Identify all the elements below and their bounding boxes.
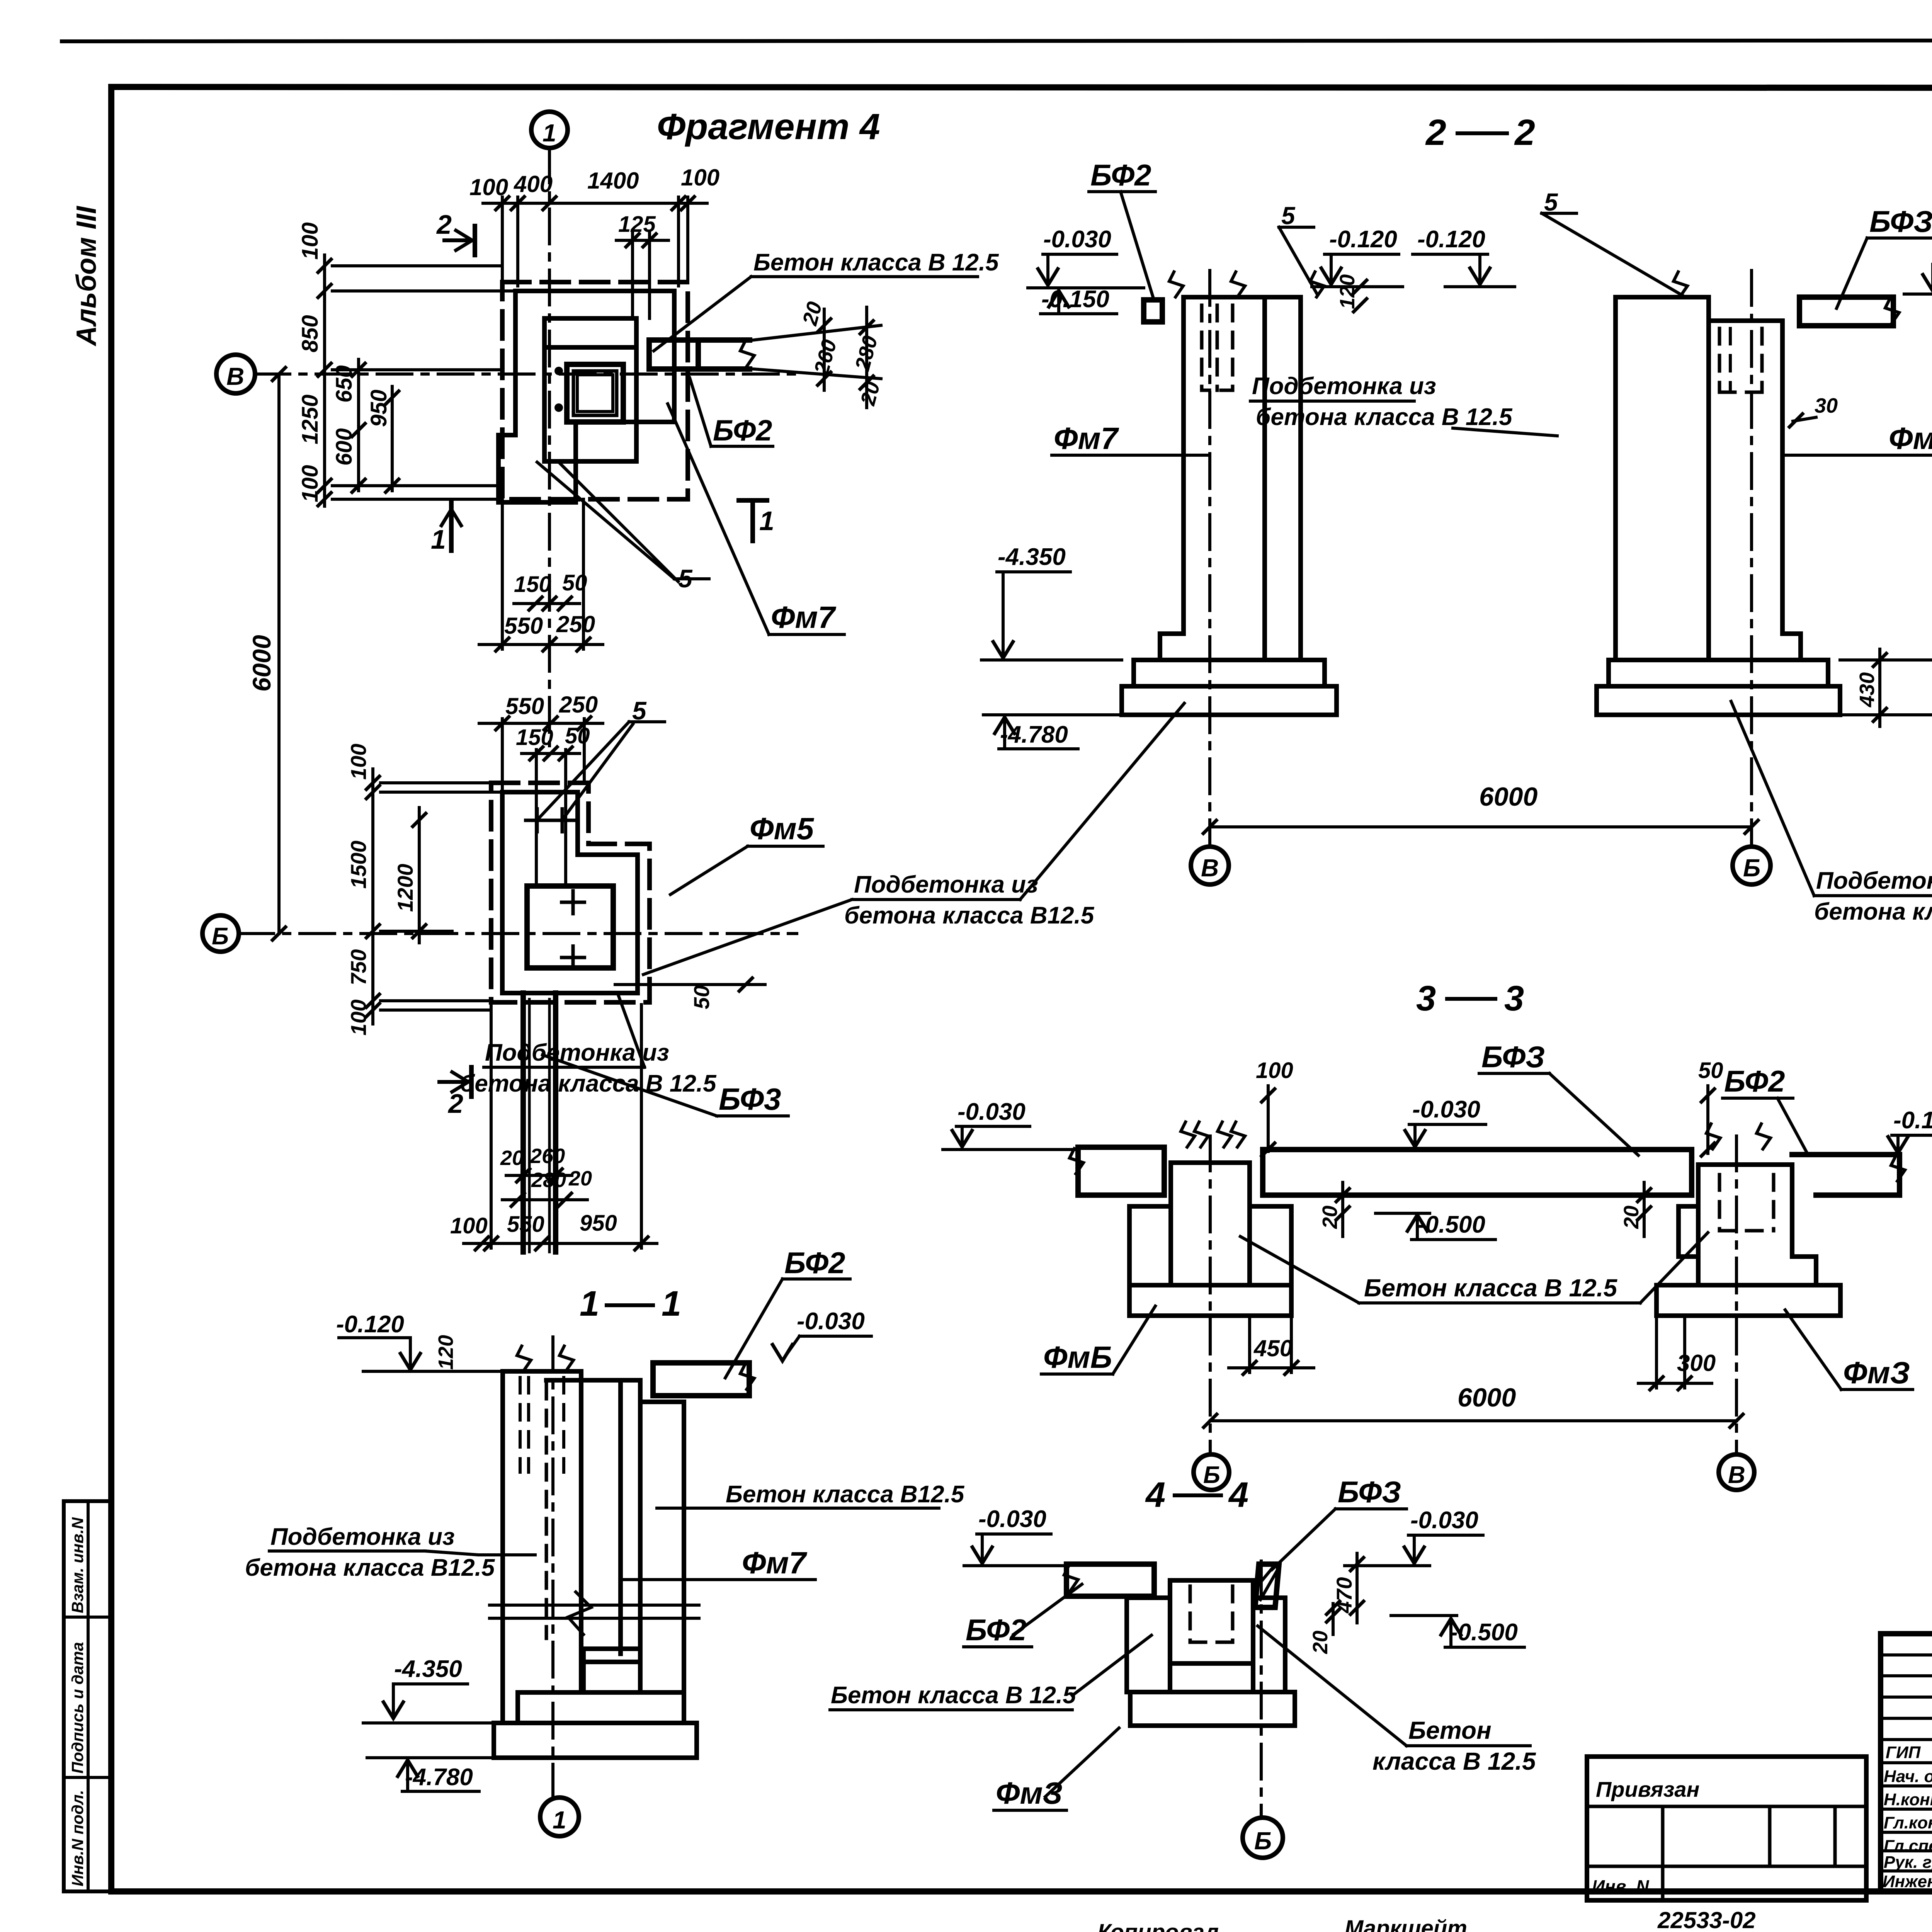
svg-text:Б: Б <box>1743 854 1760 882</box>
hidden pocket right pier <box>1719 1175 1774 1231</box>
svg-text:Б: Б <box>1203 1462 1220 1488</box>
svg-text:300: 300 <box>1677 1350 1716 1376</box>
axis right pier <box>1735 1136 1738 1453</box>
BF2 stub top left <box>1144 300 1162 322</box>
svg-text:-0.150: -0.150 <box>1893 1107 1932 1134</box>
svg-text:250: 250 <box>559 692 598 718</box>
svg-text:120: 120 <box>434 1335 457 1370</box>
svg-text:БФЗ: БФЗ <box>1481 1040 1545 1074</box>
svg-text:100: 100 <box>450 1213 488 1238</box>
right footing slab <box>1597 686 1840 715</box>
svg-text:1: 1 <box>553 1806 566 1834</box>
svg-text:бетона класса В12.5: бетона класса В12.5 <box>844 902 1095 929</box>
foundation solid outline <box>502 792 638 993</box>
svg-text:2: 2 <box>436 209 452 240</box>
bolt squiggles left col <box>1169 270 1183 298</box>
svg-text:20: 20 <box>500 1146 524 1170</box>
svg-text:БФЗ: БФЗ <box>1869 204 1932 238</box>
axis circle B <box>1194 1454 1229 1490</box>
axis line B horizontal <box>239 932 797 935</box>
axis circle B <box>1733 847 1770 884</box>
svg-text:БФ2: БФ2 <box>713 414 772 447</box>
left footing step <box>1134 660 1325 686</box>
svg-text:-0.030: -0.030 <box>1412 1096 1480 1123</box>
svg-text:Инв.N подл.: Инв.N подл. <box>68 1790 87 1886</box>
title block outer <box>1881 1634 1932 1891</box>
svg-text:ГИП: ГИП <box>1886 1743 1921 1762</box>
sheet top edge line <box>62 40 1932 41</box>
svg-text:470: 470 <box>1332 1577 1356 1614</box>
svg-text:280: 280 <box>531 1168 566 1192</box>
svg-text:-0.030: -0.030 <box>957 1099 1026 1125</box>
svg-text:Фм7: Фм7 <box>742 1546 808 1580</box>
beam BF3 down <box>523 993 556 1252</box>
pit left wall <box>503 1371 581 1723</box>
svg-text:Нач. отд.: Нач. отд. <box>1884 1767 1932 1786</box>
svg-text:50: 50 <box>565 723 590 748</box>
svg-text:Альбом III: Альбом III <box>71 206 102 347</box>
right pier column <box>1679 1165 1816 1285</box>
svg-text:Н.контр.: Н.контр. <box>1884 1790 1932 1809</box>
svg-text:класса В 12.5: класса В 12.5 <box>1372 1747 1536 1775</box>
bolt squiggle right <box>1673 270 1687 298</box>
svg-text:-4.350: -4.350 <box>998 544 1066 570</box>
top dim line <box>483 202 707 205</box>
svg-text:3: 3 <box>1416 979 1436 1018</box>
axis line 1 vertical <box>548 148 551 746</box>
left footing slab <box>1122 686 1337 715</box>
svg-text:ФмЗ: ФмЗ <box>996 1776 1063 1810</box>
inner vert chain 650/600 <box>357 359 360 491</box>
svg-text:450: 450 <box>1253 1335 1293 1361</box>
left pier column <box>1171 1163 1250 1285</box>
svg-text:-0.500: -0.500 <box>1417 1211 1485 1238</box>
svg-text:100: 100 <box>346 744 371 780</box>
svg-text:250: 250 <box>556 611 595 637</box>
column inner square <box>577 375 613 412</box>
svg-text:1200: 1200 <box>393 864 417 912</box>
svg-text:100: 100 <box>346 1000 371 1036</box>
right column FM5 body <box>1616 297 1801 660</box>
beam BF2 right <box>1792 1155 1900 1195</box>
axis circle 1 <box>531 112 568 148</box>
svg-text:550: 550 <box>505 693 544 719</box>
svg-text:В: В <box>1728 1462 1745 1488</box>
svg-text:1400: 1400 <box>587 168 639 194</box>
column square FM5 <box>527 886 613 968</box>
svg-text:В: В <box>226 362 244 390</box>
right pier footing <box>1656 1285 1840 1316</box>
svg-text:1: 1 <box>580 1284 599 1323</box>
svg-text:650: 650 <box>332 365 357 403</box>
svg-text:100: 100 <box>681 165 719 190</box>
svg-text:260: 260 <box>530 1145 565 1168</box>
svg-text:Бетон класса В12.5: Бетон класса В12.5 <box>726 1481 965 1508</box>
axis left <box>1208 270 1211 846</box>
column middle square <box>573 371 617 415</box>
svg-text:-0.030: -0.030 <box>797 1308 865 1335</box>
svg-text:Подпись и дата: Подпись и дата <box>68 1642 87 1774</box>
svg-text:-0.120: -0.120 <box>1417 226 1485 253</box>
svg-text:Привязан: Привязан <box>1596 1777 1699 1801</box>
svg-text:850: 850 <box>298 315 323 352</box>
svg-text:100: 100 <box>469 174 508 200</box>
svg-text:-0.030: -0.030 <box>1410 1507 1478 1534</box>
svg-text:Рук. гр.: Рук. гр. <box>1884 1853 1932 1872</box>
svg-text:2: 2 <box>1514 112 1535 153</box>
beam BF2 to the right <box>649 340 750 369</box>
svg-text:бетона класса В 12.5: бетона класса В 12.5 <box>1256 404 1513 430</box>
svg-text:600: 600 <box>332 428 357 466</box>
svg-text:бетона класса В12.5: бетона класса В12.5 <box>245 1554 495 1581</box>
svg-text:-0.120: -0.120 <box>336 1311 404 1338</box>
svg-text:22533-02: 22533-02 <box>1657 1907 1756 1932</box>
svg-text:100: 100 <box>1256 1058 1293 1083</box>
hidden bolt lines left <box>1202 305 1217 390</box>
svg-text:БФ2: БФ2 <box>1090 158 1151 192</box>
svg-text:750: 750 <box>346 949 371 985</box>
hidden dashed lines <box>520 1378 529 1472</box>
svg-text:4: 4 <box>1145 1475 1165 1515</box>
right footing step <box>1609 660 1828 686</box>
svg-text:550: 550 <box>507 1212 544 1237</box>
svg-text:-0.030: -0.030 <box>978 1506 1046 1532</box>
svg-text:1: 1 <box>543 119 556 147</box>
svg-text:-4.780: -4.780 <box>405 1764 473 1791</box>
svg-text:100: 100 <box>298 465 323 502</box>
axis dash-dot <box>551 1337 554 1798</box>
svg-text:2: 2 <box>1425 112 1446 153</box>
svg-text:-0.030: -0.030 <box>1043 226 1111 253</box>
pit outer <box>1127 1598 1285 1692</box>
svg-text:Подбетонка из: Подбетонка из <box>270 1524 455 1550</box>
column outer square <box>567 364 623 422</box>
svg-text:30: 30 <box>1815 394 1838 417</box>
svg-text:Маркшейт: Маркшейт <box>1345 1916 1467 1932</box>
dim 1200 <box>418 808 421 943</box>
svg-text:20: 20 <box>568 1167 592 1190</box>
axis circle V <box>1191 847 1229 884</box>
svg-text:1: 1 <box>662 1284 681 1323</box>
svg-text:150: 150 <box>514 572 551 597</box>
svg-text:бетона класса В12.5: бетона класса В12.5 <box>1814 898 1932 925</box>
privyazan outer <box>1587 1757 1866 1900</box>
left dim chain outer <box>323 255 326 506</box>
svg-text:Гл.конст.: Гл.конст. <box>1884 1813 1932 1832</box>
axis circle B <box>202 915 239 952</box>
bolt squiggles left pier <box>1181 1121 1195 1148</box>
left dim chain <box>371 769 374 1024</box>
svg-text:50: 50 <box>689 985 714 1009</box>
svg-text:Б: Б <box>212 923 229 950</box>
left pier pit <box>1129 1206 1291 1285</box>
break lines <box>490 1605 699 1618</box>
svg-text:6000: 6000 <box>1479 782 1537 811</box>
left margin stamp table <box>64 1501 112 1891</box>
inner step lines <box>583 1649 640 1692</box>
svg-text:50: 50 <box>1698 1058 1723 1083</box>
long slab BF3 <box>1263 1150 1692 1195</box>
svg-text:100: 100 <box>298 222 323 260</box>
svg-text:БФ3: БФ3 <box>719 1082 781 1116</box>
svg-text:4: 4 <box>1228 1475 1248 1515</box>
svg-text:430: 430 <box>1855 672 1879 707</box>
svg-text:Бетон класса В 12.5: Бетон класса В 12.5 <box>831 1682 1077 1709</box>
svg-text:2: 2 <box>447 1088 463 1119</box>
foundation solid outline <box>498 291 674 502</box>
axis dots <box>554 367 563 375</box>
svg-text:Фм5: Фм5 <box>750 811 815 846</box>
beam inner lines <box>529 999 549 1252</box>
axis circle 1 bottom <box>540 1798 579 1836</box>
left pier footing <box>1129 1285 1291 1316</box>
svg-text:3: 3 <box>1504 979 1524 1018</box>
svg-text:ФмЗ: ФмЗ <box>1843 1355 1910 1390</box>
svg-text:550: 550 <box>504 613 543 639</box>
bolt squiggles <box>517 1345 531 1372</box>
hidden pocket dashed U <box>1190 1586 1233 1642</box>
svg-text:Копировал: Копировал <box>1097 1920 1219 1932</box>
svg-text:бетона класса В 12.5: бетона класса В 12.5 <box>460 1070 717 1097</box>
svg-text:6000: 6000 <box>1458 1383 1516 1412</box>
beam BF2 <box>1066 1564 1154 1596</box>
bolt squiggles right pier <box>1706 1122 1720 1150</box>
svg-text:20: 20 <box>1309 1631 1332 1654</box>
svg-text:Фрагмент 4: Фрагмент 4 <box>657 106 880 147</box>
svg-text:Подбетонка из: Подбетонка из <box>1816 867 1932 894</box>
axis left pier <box>1209 1136 1212 1453</box>
svg-text:5: 5 <box>1281 202 1296 230</box>
svg-text:БФЗ: БФЗ <box>1338 1475 1401 1509</box>
svg-text:Бетон класса В 12.5: Бетон класса В 12.5 <box>1364 1274 1617 1302</box>
section mark 1 bottom-right <box>750 500 755 541</box>
svg-text:1250: 1250 <box>298 395 323 444</box>
anchor crosses <box>560 889 586 915</box>
svg-text:-0.120: -0.120 <box>1329 226 1397 253</box>
footing slab <box>494 1723 697 1758</box>
pit dashed outline <box>502 282 688 499</box>
BF3 beam end hatched <box>1255 1564 1279 1607</box>
svg-text:1: 1 <box>431 524 446 554</box>
axis circle V <box>216 355 255 393</box>
svg-text:Подбетонка из: Подбетонка из <box>854 871 1038 898</box>
svg-text:1: 1 <box>759 506 774 536</box>
svg-text:БФ2: БФ2 <box>784 1246 845 1280</box>
axis circle V <box>1719 1454 1754 1490</box>
svg-text:Инв. N: Инв. N <box>1592 1876 1649 1896</box>
svg-text:Бетон класса В 12.5: Бетон класса В 12.5 <box>753 249 999 276</box>
svg-text:1500: 1500 <box>346 840 371 889</box>
svg-text:Б: Б <box>1254 1827 1272 1855</box>
svg-text:ФмБ: ФмБ <box>1043 1340 1112 1374</box>
svg-text:В: В <box>1201 854 1219 882</box>
svg-text:6000: 6000 <box>247 635 276 692</box>
svg-text:Бетон: Бетон <box>1408 1716 1492 1744</box>
svg-text:Фм5: Фм5 <box>1889 421 1932 456</box>
BF3 slab top right <box>1799 297 1893 326</box>
svg-text:Фм7: Фм7 <box>1054 421 1119 456</box>
beam BF2 top right <box>653 1363 749 1396</box>
signature grid rows <box>1881 1655 1932 1871</box>
svg-text:950: 950 <box>366 389 391 427</box>
left column FM7 body <box>1160 297 1301 660</box>
svg-text:950: 950 <box>580 1211 617 1236</box>
leader <box>654 277 751 351</box>
svg-text:150: 150 <box>516 725 553 750</box>
svg-text:БФ2: БФ2 <box>1724 1064 1785 1098</box>
dim 6000 vertical <box>277 374 281 934</box>
dim 50 small <box>615 983 765 986</box>
pit dashed outline stepped <box>491 783 650 1002</box>
footing <box>1130 1692 1295 1726</box>
left beam BF2 with break <box>1078 1147 1164 1195</box>
svg-text:Подбетонка из: Подбетонка из <box>1252 373 1436 400</box>
pedestal block FM7 <box>544 318 636 461</box>
axis <box>1260 1561 1263 1816</box>
axis circle B <box>1243 1818 1283 1858</box>
hidden pocket right <box>1719 328 1762 392</box>
svg-text:Фм7: Фм7 <box>771 600 837 634</box>
svg-text:400: 400 <box>514 171 553 197</box>
svg-text:Взам. инв.N: Взам. инв.N <box>68 1517 87 1613</box>
svg-text:-4.350: -4.350 <box>394 1656 462 1682</box>
column <box>1170 1580 1253 1692</box>
footing upper step <box>518 1692 684 1723</box>
dim 950 vert <box>391 386 394 491</box>
svg-text:Инженер: Инженер <box>1883 1872 1932 1891</box>
column body lines <box>546 1371 684 1692</box>
axis line V horizontal <box>255 372 797 376</box>
axis right <box>1750 270 1753 846</box>
